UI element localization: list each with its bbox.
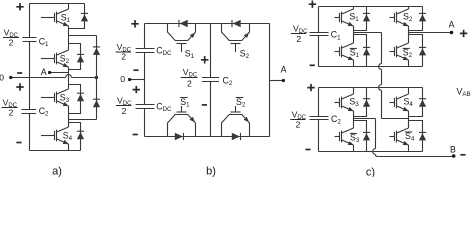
- svg-text:S2: S2: [60, 54, 70, 66]
- transistor S2bar c: [390, 43, 409, 60]
- wire left rail lower segment bridge1 c: [318, 36, 320, 67]
- capacitor C2 c: [310, 117, 329, 120]
- svg-text:2: 2: [187, 78, 192, 88]
- svg-text:S2: S2: [236, 97, 246, 109]
- wire S3 freewheel loop: [69, 85, 81, 114]
- transistor S2: [50, 50, 69, 67]
- transistor S1 b: [168, 24, 196, 53]
- plus sign top left bridge1 c: [309, 0, 316, 7]
- node A dot c: [450, 31, 454, 35]
- transistor S1: [50, 9, 69, 26]
- svg-text:S1: S1: [61, 12, 71, 24]
- wire chain S4-S4bar c: [408, 111, 410, 128]
- wire S4 freewheel loop c: [409, 88, 423, 117]
- wire bottom rail a: [30, 150, 81, 152]
- diode antiparallel S2bar b: [232, 133, 241, 140]
- wire chain S2bar emitter c: [408, 60, 410, 67]
- wire node A tap b: [270, 80, 284, 82]
- plus sign top left a: [16, 3, 23, 10]
- wire connector to bridge2 right leg midpoint: [382, 118, 409, 120]
- diode D6 clamp lower: [93, 99, 100, 107]
- svg-text:B: B: [450, 144, 456, 154]
- wire chain S1-S2: [68, 26, 70, 50]
- label S1bar b: [180, 97, 190, 109]
- wire chain S1-S1bar c: [353, 26, 355, 43]
- svg-text:A: A: [281, 64, 287, 74]
- label S2 c: [403, 12, 413, 24]
- transistor S1bar b: [168, 106, 196, 137]
- wire left rail upper segment bridge2 c: [318, 88, 320, 117]
- wire bridge1 right leg midpoint to node A: [409, 32, 452, 34]
- wire center column lower b: [210, 82, 212, 137]
- wire chain S4 emitter: [68, 144, 70, 151]
- node 0 dot b: [128, 78, 131, 81]
- wire left rail lower segment a: [29, 114, 31, 151]
- wire S1 freewheel loop c: [354, 7, 367, 31]
- svg-text:S3: S3: [349, 97, 359, 109]
- label S2bar b: [236, 97, 246, 109]
- diode antiparallel S2bar c: [419, 47, 426, 55]
- wire bottom rail bridge2 c: [319, 151, 423, 153]
- svg-text:0: 0: [0, 73, 4, 83]
- svg-text:VAB: VAB: [457, 86, 471, 98]
- minus sign bottom left b: [133, 134, 138, 136]
- svg-text:C1: C1: [39, 36, 49, 48]
- diode antiparallel S2 b: [232, 20, 241, 27]
- diode antiparallel S3bar c: [363, 132, 370, 140]
- diode D5 clamp upper: [93, 47, 100, 55]
- plus sign top left b: [131, 20, 138, 27]
- label VDC/2 lower b: [116, 95, 132, 115]
- svg-text:S1: S1: [180, 97, 190, 109]
- wire inter-bridge connector with hops: [379, 33, 382, 119]
- wire left rail upper segment a: [29, 4, 31, 38]
- wire center column upper b: [210, 24, 212, 78]
- label VDC/2 upper b: [116, 42, 132, 62]
- diode antiparallel S4 c: [419, 99, 426, 107]
- label VDC/2 bridge1 c: [291, 24, 308, 44]
- wire chain S3 collector c: [353, 88, 355, 95]
- wire gate extension S1: [41, 17, 50, 19]
- diode D3 antiparallel S3: [77, 93, 84, 101]
- svg-text:A: A: [449, 20, 455, 30]
- svg-text:S4: S4: [63, 131, 73, 143]
- label S4bar c: [405, 131, 415, 143]
- transistor S2 c: [390, 9, 409, 26]
- diode antiparallel S1 c: [363, 13, 370, 21]
- svg-text:S3: S3: [60, 93, 70, 105]
- wire left rail upper segment b: [144, 24, 146, 49]
- svg-text:c): c): [366, 167, 375, 178]
- svg-text:CDC: CDC: [156, 102, 172, 114]
- label S1 c: [349, 12, 359, 24]
- label VDC/2 lower a: [2, 98, 18, 118]
- diode antiparallel S3 c: [363, 99, 370, 107]
- wire S2 freewheel loop: [69, 44, 81, 70]
- minus sign bottom left a: [16, 142, 21, 144]
- wire gate extension S2: [41, 58, 50, 60]
- wire left rail middle segment a: [29, 42, 31, 110]
- node A dot a: [48, 71, 51, 74]
- svg-text:S2: S2: [240, 48, 250, 60]
- wire junction S3/S4 to clamp rail: [69, 119, 97, 121]
- wire chain S3bar emitter c: [353, 145, 355, 152]
- diode D4 antiparallel S4: [77, 131, 84, 139]
- wire node B horizontal: [377, 156, 453, 158]
- minus sign bottom left bridge2 c: [305, 149, 310, 151]
- svg-text:S1: S1: [350, 47, 360, 59]
- svg-text:C1: C1: [331, 30, 341, 42]
- node B dot c: [452, 154, 456, 158]
- wire top rail b: [145, 23, 270, 25]
- svg-text:C2: C2: [331, 114, 341, 126]
- svg-text:S1: S1: [185, 48, 195, 60]
- transistor S4: [50, 127, 69, 144]
- wire S2 freewheel loop c: [409, 7, 423, 31]
- capacitor C1: [23, 38, 37, 42]
- wire chain collector S1: [68, 4, 70, 10]
- label VDC/2 upper a: [3, 27, 19, 47]
- plus sign above C2 b: [201, 56, 208, 63]
- node 0 dot a: [9, 76, 12, 79]
- wire chain S2 collector c: [408, 7, 410, 10]
- wire gate extension S4: [41, 135, 50, 137]
- svg-text:2: 2: [296, 119, 301, 129]
- svg-text:S2: S2: [403, 12, 413, 24]
- wire clamp diode rail: [96, 36, 98, 120]
- wire bridge1 left leg midpoint tap: [354, 32, 382, 34]
- wire node A tap: [50, 72, 69, 74]
- wire S3bar freewheel loop c: [354, 121, 367, 152]
- diode antiparallel S4bar c: [419, 132, 426, 140]
- transistor S3 c: [335, 94, 354, 111]
- capacitor CDC upper: [136, 49, 155, 53]
- transistor S4bar c: [390, 128, 409, 145]
- wire left rail lower segment bridge2 c: [318, 120, 320, 152]
- wire S1 freewheel loop: [69, 4, 85, 29]
- wire chain S4 collector c: [408, 88, 410, 95]
- wire junction S1/S2 to clamp rail: [69, 35, 97, 37]
- svg-text:S1: S1: [349, 12, 359, 24]
- minus sign below C1: [17, 72, 22, 74]
- wire left rail middle segment b: [144, 53, 146, 105]
- label S4 c: [403, 97, 413, 109]
- svg-text:S3: S3: [350, 132, 360, 144]
- transistor S3bar c: [335, 128, 354, 145]
- wire left rail upper segment bridge1 c: [318, 7, 320, 33]
- transistor S4 c: [390, 94, 409, 111]
- transistor S1 c: [335, 9, 354, 26]
- wire S3 freewheel loop c: [354, 88, 367, 117]
- capacitor CDC lower: [136, 105, 155, 109]
- wire chain S1bar emitter c: [353, 60, 355, 67]
- wire node 0 tap b: [130, 79, 145, 81]
- wire node B drop with hop over rail: [373, 119, 378, 157]
- svg-text:S4: S4: [405, 131, 415, 143]
- minus sign node B c: [460, 154, 465, 156]
- wire node 0 tap with hop over chain: [11, 75, 97, 78]
- svg-text:2: 2: [296, 34, 301, 44]
- wire S1bar freewheel loop c: [354, 35, 367, 67]
- svg-text:S4: S4: [404, 97, 414, 109]
- wire chain S3-S4: [68, 106, 70, 127]
- minus sign bottom left bridge1 c: [310, 64, 315, 66]
- capacitor C2 b: [202, 78, 219, 82]
- transistor S1bar c: [335, 43, 354, 60]
- transistor S2 b: [222, 24, 250, 53]
- wire left rail lower segment b: [144, 109, 146, 137]
- svg-text:C2: C2: [39, 106, 49, 118]
- diode antiparallel S1bar c: [363, 47, 370, 55]
- diode D1 antiparallel S1: [81, 13, 88, 21]
- wire chain S2-S2bar c: [408, 26, 410, 43]
- capacitor C1 c: [310, 33, 329, 36]
- transistor S2bar b: [222, 106, 250, 137]
- svg-text:2: 2: [9, 37, 14, 47]
- svg-text:C2: C2: [223, 76, 233, 88]
- node A dot b: [282, 79, 285, 82]
- wire S2bar freewheel loop c: [409, 35, 423, 67]
- wire bottom rail bridge1 c: [319, 66, 423, 68]
- wire S4 freewheel loop: [69, 123, 81, 151]
- wire chain S2-S3 node A: [68, 67, 70, 89]
- svg-text:2: 2: [122, 106, 127, 116]
- diode antiparallel S2 c: [419, 13, 426, 21]
- minus sign above node 0 b: [133, 69, 138, 71]
- svg-text:A: A: [41, 67, 47, 77]
- wire chain S4bar emitter c: [408, 145, 410, 152]
- wire gate extension S3: [41, 97, 50, 99]
- transistor S3: [50, 89, 69, 106]
- wire bottom rail b: [145, 136, 270, 138]
- wire chain S1 collector c: [353, 7, 355, 10]
- plus sign above C2: [16, 83, 23, 90]
- svg-text:S2: S2: [403, 47, 413, 59]
- plus sign top left bridge2 c: [307, 84, 314, 91]
- svg-text:0: 0: [120, 74, 125, 84]
- diode antiparallel S1bar b: [175, 133, 184, 140]
- plus sign node A c: [460, 30, 467, 37]
- capacitor C2: [22, 110, 37, 114]
- label S3 c: [349, 97, 359, 109]
- svg-text:VDC: VDC: [183, 67, 198, 78]
- wire bridge2 left leg midpoint tap: [354, 118, 376, 120]
- wire S4bar freewheel loop c: [409, 121, 423, 152]
- svg-text:2: 2: [121, 52, 126, 62]
- svg-text:CDC: CDC: [156, 46, 172, 58]
- label S2bar c: [402, 47, 412, 59]
- diode antiparallel S1 b: [179, 20, 188, 27]
- plus sign below node 0 b: [133, 86, 140, 93]
- label VDC/2 center b: [181, 67, 198, 88]
- svg-text:a): a): [52, 166, 62, 178]
- wire top rail bridge2 c: [319, 87, 423, 89]
- wire top rail a: [30, 3, 85, 5]
- wire chain S3-S3bar c: [353, 111, 355, 128]
- node clamp midpoint dot: [95, 76, 98, 79]
- label S1bar c: [349, 47, 359, 59]
- wire top rail bridge1 c: [319, 6, 423, 8]
- diode D2 antiparallel S2: [77, 54, 84, 62]
- minus sign below C2 b: [202, 104, 207, 106]
- label VDC/2 bridge2 c: [290, 110, 306, 130]
- wire right rail b: [269, 24, 271, 137]
- label S3bar c: [350, 132, 360, 144]
- svg-text:2: 2: [9, 107, 14, 117]
- svg-text:b): b): [206, 166, 216, 178]
